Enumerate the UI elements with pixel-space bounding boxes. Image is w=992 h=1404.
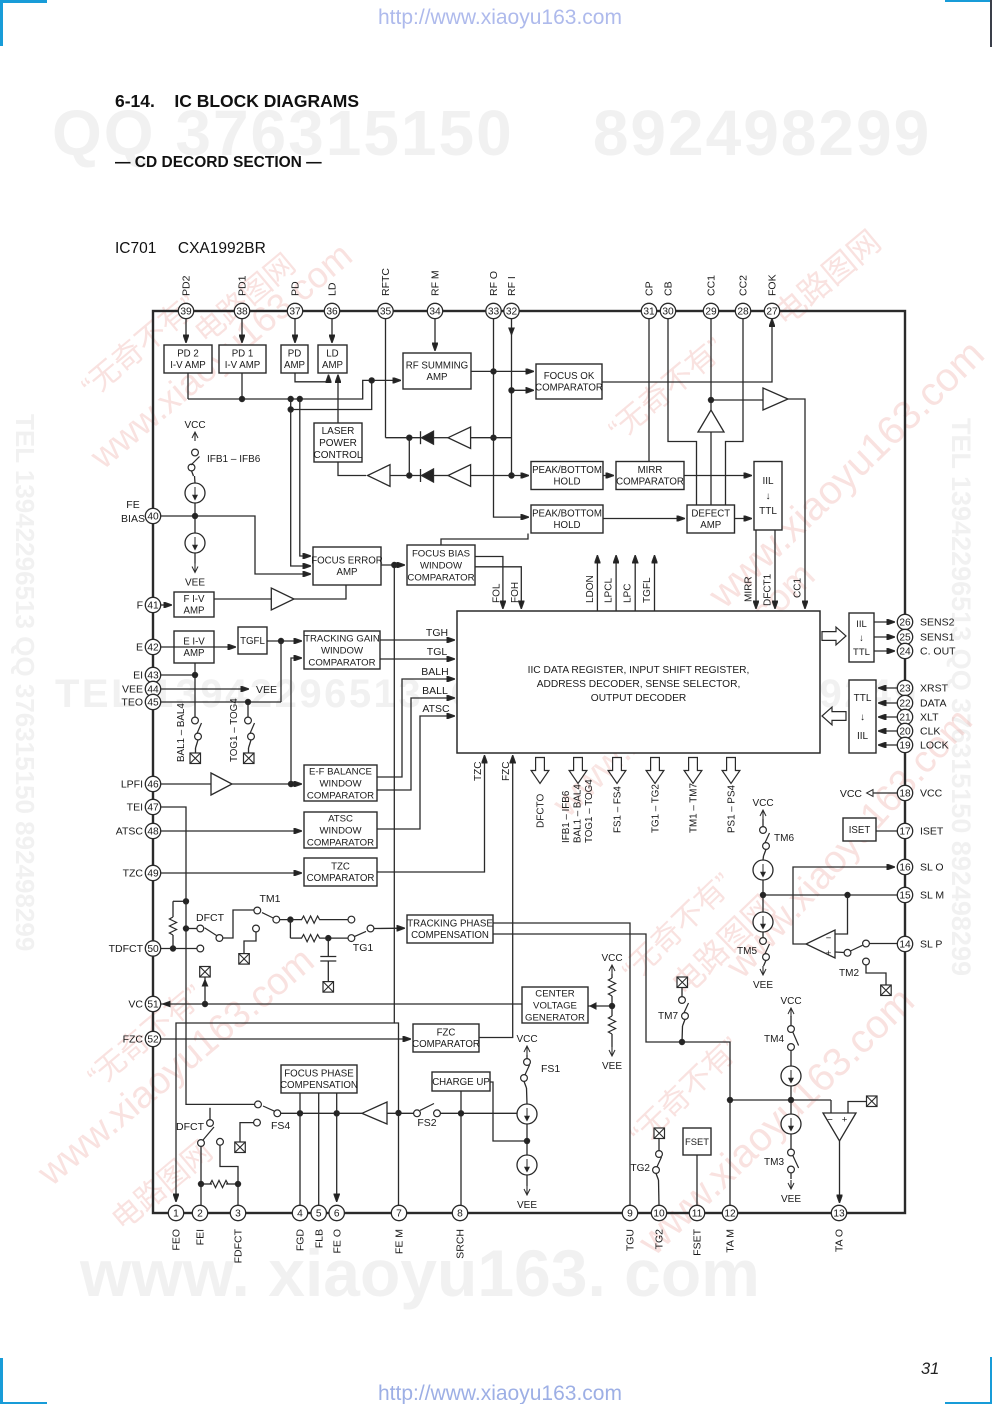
svg-text:25: 25 <box>899 633 911 644</box>
svg-text:VOLTAGE: VOLTAGE <box>533 1000 577 1011</box>
svg-text:45: 45 <box>147 698 159 709</box>
svg-text:−: − <box>827 1115 833 1126</box>
svg-text:HOLD: HOLD <box>554 520 581 531</box>
svg-text:1: 1 <box>173 1209 179 1220</box>
svg-text:CONTROL: CONTROL <box>314 450 363 461</box>
svg-text:40: 40 <box>147 512 159 523</box>
svg-text:VCC: VCC <box>601 953 622 964</box>
svg-text:TM1 – TM7: TM1 – TM7 <box>689 783 700 833</box>
svg-text:CENTER: CENTER <box>535 988 575 999</box>
svg-text:IIL: IIL <box>857 731 869 742</box>
svg-text:TG2: TG2 <box>631 1163 651 1174</box>
svg-text:VEE: VEE <box>602 1061 622 1072</box>
svg-text:DFCTO: DFCTO <box>536 794 547 828</box>
svg-text:48: 48 <box>147 827 159 838</box>
svg-text:CP: CP <box>644 281 656 296</box>
svg-text:37: 37 <box>289 307 301 318</box>
svg-text:TM6: TM6 <box>774 833 794 844</box>
svg-text:TZC: TZC <box>331 862 350 873</box>
svg-text:F I-V: F I-V <box>184 594 206 605</box>
svg-text:XRST: XRST <box>920 683 949 695</box>
svg-text:↓: ↓ <box>766 491 771 502</box>
svg-text:VCC: VCC <box>184 420 205 431</box>
svg-text:26: 26 <box>899 618 911 629</box>
svg-text:CHARGE UP: CHARGE UP <box>432 1077 490 1088</box>
svg-text:FGD: FGD <box>295 1229 307 1252</box>
svg-text:PD2: PD2 <box>181 275 193 296</box>
svg-text:7: 7 <box>396 1209 402 1220</box>
svg-text:COMPENSATION: COMPENSATION <box>280 1080 358 1091</box>
svg-text:FOH: FOH <box>510 582 521 603</box>
svg-text:TM5: TM5 <box>737 946 757 957</box>
svg-text:SENS1: SENS1 <box>920 632 955 644</box>
svg-text:PD 2: PD 2 <box>177 349 199 360</box>
svg-text:ISET: ISET <box>920 826 944 838</box>
svg-text:30: 30 <box>662 307 674 318</box>
svg-text:VEE: VEE <box>122 684 143 696</box>
svg-text:WINDOW: WINDOW <box>319 778 362 789</box>
svg-text:EI: EI <box>133 670 143 682</box>
svg-text:52: 52 <box>147 1035 159 1046</box>
svg-text:AMP: AMP <box>322 360 343 371</box>
svg-text:47: 47 <box>147 803 159 814</box>
svg-text:9: 9 <box>627 1209 633 1220</box>
svg-text:32: 32 <box>506 307 518 318</box>
svg-text:E: E <box>136 642 143 654</box>
svg-text:COMPENSATION: COMPENSATION <box>411 930 489 941</box>
svg-text:21: 21 <box>899 713 911 724</box>
svg-text:22: 22 <box>899 699 911 710</box>
svg-text:ADDRESS DECODER, SENSE SELECTO: ADDRESS DECODER, SENSE SELECTOR, <box>537 679 741 690</box>
svg-text:−: − <box>826 933 832 944</box>
svg-text:23: 23 <box>899 684 911 695</box>
svg-text:FZC: FZC <box>501 762 512 781</box>
svg-text:AMP: AMP <box>184 606 205 617</box>
svg-text:BAL1 – BAL4: BAL1 – BAL4 <box>176 703 187 762</box>
svg-text:PS1 – PS4: PS1 – PS4 <box>727 785 738 833</box>
svg-text:FOK: FOK <box>767 274 779 296</box>
svg-text:29: 29 <box>705 307 717 318</box>
svg-text:I-V AMP: I-V AMP <box>170 360 206 371</box>
svg-text:38: 38 <box>236 307 248 318</box>
svg-text:12: 12 <box>724 1209 736 1220</box>
svg-text:FE O: FE O <box>331 1229 343 1254</box>
svg-text:19: 19 <box>899 741 911 752</box>
svg-text:TTL: TTL <box>854 693 872 704</box>
svg-text:42: 42 <box>147 643 159 654</box>
svg-text:36: 36 <box>326 307 338 318</box>
svg-text:COMPARATOR: COMPARATOR <box>616 477 684 488</box>
svg-text:DEFECT: DEFECT <box>691 509 730 520</box>
svg-text:TGH: TGH <box>426 627 448 639</box>
svg-text:PD: PD <box>290 281 302 296</box>
svg-text:50: 50 <box>147 944 159 955</box>
svg-text:LPFI: LPFI <box>121 779 143 791</box>
svg-text:41: 41 <box>147 601 159 612</box>
svg-text:LPC: LPC <box>623 584 634 603</box>
svg-text:HOLD: HOLD <box>554 477 581 488</box>
svg-text:24: 24 <box>899 647 911 658</box>
svg-text:20: 20 <box>899 727 911 738</box>
svg-text:TOG1 – TOG4: TOG1 – TOG4 <box>584 779 595 843</box>
svg-text:BAL1 – BAL4: BAL1 – BAL4 <box>573 784 584 843</box>
svg-text:LD: LD <box>327 282 339 296</box>
svg-text:ATSC: ATSC <box>422 703 450 715</box>
svg-text:TM3: TM3 <box>764 1157 784 1168</box>
svg-text:FE: FE <box>126 499 139 511</box>
svg-text:16: 16 <box>899 863 911 874</box>
svg-text:LASER: LASER <box>322 426 355 437</box>
svg-text:VEE: VEE <box>185 578 205 589</box>
svg-text:FS2: FS2 <box>417 1117 436 1129</box>
svg-text:DFCT1: DFCT1 <box>763 573 774 606</box>
svg-text:E-F BALANCE: E-F BALANCE <box>309 766 372 777</box>
svg-text:POWER: POWER <box>319 438 357 449</box>
svg-text:TGL: TGL <box>427 646 448 658</box>
svg-text:31: 31 <box>643 307 655 318</box>
svg-text:SRCH: SRCH <box>455 1229 467 1259</box>
svg-text:DATA: DATA <box>920 698 946 710</box>
svg-text:VCC: VCC <box>840 788 863 800</box>
svg-text:FS1 – FS4: FS1 – FS4 <box>613 786 624 833</box>
svg-text:COMPARATOR: COMPARATOR <box>308 657 375 668</box>
svg-text:COMPARATOR: COMPARATOR <box>307 837 374 848</box>
svg-text:C. OUT: C. OUT <box>920 646 956 658</box>
svg-text:ATSC: ATSC <box>328 813 353 824</box>
svg-text:35: 35 <box>380 307 392 318</box>
svg-text:TEI: TEI <box>127 802 143 814</box>
svg-text:TGU: TGU <box>625 1229 637 1251</box>
svg-text:SENS2: SENS2 <box>920 617 955 629</box>
svg-text:VCC: VCC <box>752 798 773 809</box>
svg-text:FLB: FLB <box>313 1229 325 1248</box>
svg-text:WINDOW: WINDOW <box>420 560 463 571</box>
svg-text:WINDOW: WINDOW <box>321 645 364 656</box>
svg-text:6: 6 <box>334 1209 340 1220</box>
svg-text:BALH: BALH <box>421 666 448 678</box>
svg-text:VEE: VEE <box>781 1194 801 1205</box>
svg-text:51: 51 <box>147 1000 159 1011</box>
svg-text:BALL: BALL <box>422 685 448 697</box>
svg-text:+: + <box>826 948 832 959</box>
svg-text:DFCT: DFCT <box>196 912 225 924</box>
svg-text:CC2: CC2 <box>738 275 750 296</box>
svg-text:28: 28 <box>737 307 749 318</box>
svg-text:CC1: CC1 <box>793 578 804 598</box>
svg-text:CB: CB <box>663 281 675 296</box>
svg-text:MIRR: MIRR <box>638 465 663 476</box>
svg-text:FDFCT: FDFCT <box>233 1228 245 1263</box>
svg-text:COMPARATOR: COMPARATOR <box>535 383 603 394</box>
svg-text:TG2: TG2 <box>654 1229 666 1250</box>
svg-text:COMPARATOR: COMPARATOR <box>407 572 474 583</box>
svg-text:AMP: AMP <box>184 648 205 659</box>
svg-text:TM2: TM2 <box>839 968 859 979</box>
svg-text:FOCUS PHASE: FOCUS PHASE <box>284 1069 354 1080</box>
svg-text:CLK: CLK <box>920 726 940 738</box>
svg-text:AMP: AMP <box>700 520 721 531</box>
svg-text:TZC: TZC <box>473 762 484 781</box>
svg-text:PEAK/BOTTOM: PEAK/BOTTOM <box>532 509 602 520</box>
svg-text:BIAS: BIAS <box>121 513 145 525</box>
svg-text:RFTC: RFTC <box>380 268 392 296</box>
svg-text:SL O: SL O <box>920 862 944 874</box>
svg-text:TOG1 – TOG4: TOG1 – TOG4 <box>229 698 240 762</box>
svg-text:AMP: AMP <box>284 360 305 371</box>
svg-text:TZC: TZC <box>123 868 144 880</box>
svg-text:34: 34 <box>429 307 441 318</box>
svg-text:4: 4 <box>297 1209 303 1220</box>
svg-text:FEO: FEO <box>171 1229 183 1251</box>
svg-text:↓: ↓ <box>859 633 864 644</box>
svg-text:PD: PD <box>288 349 301 360</box>
svg-text:46: 46 <box>147 780 159 791</box>
svg-text:VC: VC <box>128 999 143 1011</box>
svg-text:PD 1: PD 1 <box>232 349 254 360</box>
svg-text:39: 39 <box>180 307 192 318</box>
svg-text:49: 49 <box>147 869 159 880</box>
svg-text:COMPARATOR: COMPARATOR <box>412 1039 480 1050</box>
svg-text:XLT: XLT <box>920 712 939 724</box>
svg-text:3: 3 <box>235 1209 241 1220</box>
svg-text:18: 18 <box>899 789 911 800</box>
svg-text:LPCL: LPCL <box>604 578 615 603</box>
svg-text:OUTPUT DECODER: OUTPUT DECODER <box>591 693 686 704</box>
svg-text:RF SUMMING: RF SUMMING <box>406 361 468 372</box>
svg-text:AMP: AMP <box>337 567 358 578</box>
svg-text:43: 43 <box>147 671 159 682</box>
svg-text:ISET: ISET <box>849 825 871 836</box>
svg-text:5: 5 <box>316 1209 322 1220</box>
svg-text:FE M: FE M <box>394 1229 406 1254</box>
svg-text:TEO: TEO <box>121 697 143 709</box>
svg-text:15: 15 <box>899 891 911 902</box>
svg-text:TG1 – TG2: TG1 – TG2 <box>651 784 662 833</box>
svg-text:TRACKING PHASE: TRACKING PHASE <box>407 919 493 930</box>
svg-text:AMP: AMP <box>427 372 448 383</box>
svg-text:ATSC: ATSC <box>116 826 144 838</box>
svg-text:VEE: VEE <box>256 684 277 696</box>
svg-text:2: 2 <box>197 1209 203 1220</box>
svg-text:+: + <box>842 1115 848 1126</box>
svg-text:FOCUS ERROR: FOCUS ERROR <box>311 556 383 567</box>
svg-text:10: 10 <box>653 1209 665 1220</box>
svg-text:MIRR: MIRR <box>744 576 755 602</box>
svg-text:RF I: RF I <box>506 276 518 296</box>
svg-text:IFB1 – IFB6: IFB1 – IFB6 <box>561 790 572 843</box>
svg-text:8: 8 <box>457 1209 463 1220</box>
svg-text:WINDOW: WINDOW <box>319 825 362 836</box>
svg-text:TA O: TA O <box>834 1229 846 1252</box>
svg-text:TTL: TTL <box>853 647 870 658</box>
svg-text:TTL: TTL <box>759 506 777 517</box>
svg-text:FZC: FZC <box>123 1034 144 1046</box>
svg-text:FOCUS BIAS: FOCUS BIAS <box>412 548 470 559</box>
svg-text:SL M: SL M <box>920 890 944 902</box>
svg-text:TRACKING GAIN: TRACKING GAIN <box>304 633 380 644</box>
svg-text:11: 11 <box>692 1209 703 1220</box>
svg-text:FSET: FSET <box>692 1228 704 1255</box>
svg-text:VCC: VCC <box>920 788 943 800</box>
svg-text:27: 27 <box>766 307 778 318</box>
svg-text:PEAK/BOTTOM: PEAK/BOTTOM <box>532 465 602 476</box>
svg-text:TA M: TA M <box>725 1229 737 1253</box>
svg-text:17: 17 <box>899 827 911 838</box>
svg-text:CC1: CC1 <box>706 275 718 296</box>
svg-text:TM1: TM1 <box>260 893 281 905</box>
svg-text:TM7: TM7 <box>658 1011 678 1022</box>
svg-text:I-V AMP: I-V AMP <box>225 360 261 371</box>
svg-text:TGFL: TGFL <box>642 577 653 603</box>
svg-text:GENERATOR: GENERATOR <box>525 1012 585 1023</box>
svg-text:FSET: FSET <box>685 1136 709 1147</box>
svg-text:VCC: VCC <box>780 996 801 1007</box>
svg-text:VEE: VEE <box>517 1200 537 1211</box>
svg-text:13: 13 <box>833 1209 845 1220</box>
svg-text:DFCT: DFCT <box>176 1121 205 1133</box>
svg-text:COMPARATOR: COMPARATOR <box>307 790 374 801</box>
svg-text:↓: ↓ <box>860 712 865 723</box>
svg-text:TG1: TG1 <box>353 942 374 954</box>
svg-text:FS1: FS1 <box>541 1063 560 1075</box>
svg-text:F: F <box>137 600 143 612</box>
svg-text:RF O: RF O <box>488 271 500 296</box>
svg-text:TM4: TM4 <box>764 1034 784 1045</box>
svg-text:FOL: FOL <box>492 583 503 603</box>
svg-text:IFB1 – IFB6: IFB1 – IFB6 <box>207 454 261 465</box>
svg-text:FS4: FS4 <box>271 1120 290 1132</box>
svg-text:LD: LD <box>326 349 338 360</box>
svg-text:COMPARATOR: COMPARATOR <box>307 873 375 884</box>
svg-text:PD1: PD1 <box>237 275 249 296</box>
svg-text:IIL: IIL <box>856 619 867 630</box>
svg-text:FEI: FEI <box>195 1229 207 1245</box>
svg-text:LOCK: LOCK <box>920 740 949 752</box>
svg-text:33: 33 <box>488 307 500 318</box>
svg-text:TGFL: TGFL <box>240 636 265 647</box>
svg-text:IIC DATA REGISTER, INPUT SHIFT: IIC DATA REGISTER, INPUT SHIFT REGISTER, <box>528 665 750 676</box>
svg-text:VEE: VEE <box>753 980 773 991</box>
svg-text:TDFCT: TDFCT <box>109 943 144 955</box>
svg-text:SL P: SL P <box>920 939 942 951</box>
svg-text:FZC: FZC <box>437 1028 456 1039</box>
svg-text:LDON: LDON <box>585 575 596 603</box>
svg-text:IIL: IIL <box>762 476 774 487</box>
svg-text:14: 14 <box>899 940 911 951</box>
svg-text:VCC: VCC <box>516 1034 537 1045</box>
svg-text:RF M: RF M <box>430 270 442 296</box>
svg-text:FOCUS OK: FOCUS OK <box>544 371 595 382</box>
svg-text:E I-V: E I-V <box>183 637 205 648</box>
